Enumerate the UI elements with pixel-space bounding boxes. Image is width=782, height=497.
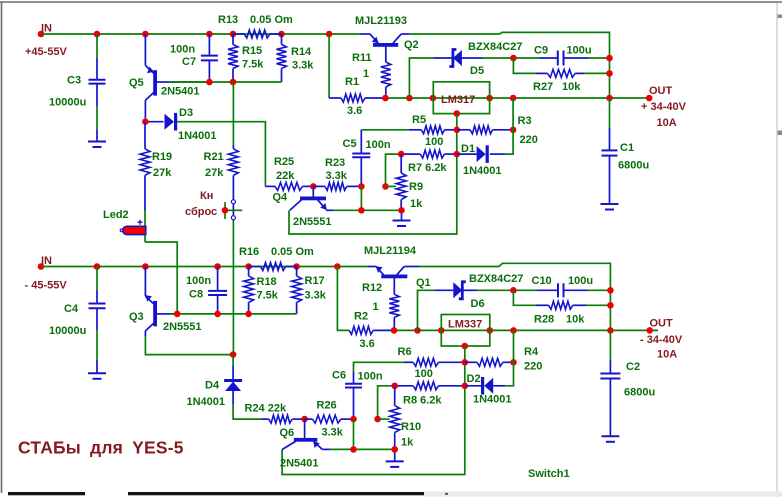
svg-text:3.3k: 3.3k (322, 427, 344, 439)
svg-text:BZX84C27: BZX84C27 (469, 273, 523, 285)
wire R7/R9 top elbow (386, 154, 402, 186)
wire Q6 emitter row (322, 448, 330, 450)
svg-text:3.3k: 3.3k (305, 290, 327, 302)
capacitor C1 (609, 98, 611, 128)
resistor R8 (395, 385, 414, 387)
resistor R28 (536, 304, 549, 306)
resistor R2 (349, 326, 373, 334)
transistor Q1 (367, 266, 376, 268)
ground C3 (88, 141, 106, 143)
capacitor C2 (609, 330, 611, 360)
transistor Q4 (312, 186, 314, 196)
svg-text:R28: R28 (534, 314, 554, 326)
node rail2 junctions (94, 263, 101, 270)
svg-text:C5: C5 (343, 138, 357, 150)
svg-text:1k: 1k (401, 437, 414, 449)
svg-text:R14: R14 (291, 46, 312, 58)
svg-text:1N4001: 1N4001 (178, 130, 217, 142)
svg-text:C10: C10 (532, 275, 552, 287)
svg-text:D4: D4 (205, 380, 220, 392)
resistor R21 (232, 82, 234, 145)
svg-text:100: 100 (415, 368, 433, 380)
svg-text:R24 22k: R24 22k (245, 403, 287, 415)
svg-text:Q6: Q6 (280, 427, 295, 439)
node R6/R4 junction (462, 359, 469, 366)
svg-text:C6: C6 (332, 370, 346, 382)
capacitor C9 (540, 57, 557, 59)
svg-text:R17: R17 (305, 275, 325, 287)
svg-text:100n: 100n (366, 139, 391, 151)
svg-text:Q1: Q1 (416, 277, 431, 289)
wire C9 right to column (588, 57, 610, 59)
svg-text:R8 6.2k: R8 6.2k (403, 395, 442, 407)
svg-text:IN: IN (41, 255, 52, 267)
svg-text:R27: R27 (533, 81, 553, 93)
wire R1 left column (328, 34, 330, 98)
node R7 left / R9 top (398, 151, 405, 158)
wire Q5 base to row (157, 81, 170, 83)
svg-text:R11: R11 (352, 52, 372, 64)
capacitor C8 (217, 267, 219, 291)
svg-text:R25: R25 (274, 156, 294, 168)
wire C6/R6 elbow (354, 362, 405, 372)
wire C6 node to emitter row2 (353, 419, 355, 449)
node D5/C9/R27 left (510, 55, 517, 62)
wire rail2 right loop to C10/R28/OUT column (419, 263, 611, 330)
svg-text:220: 220 (524, 361, 542, 373)
resistor R24 (262, 418, 269, 420)
svg-text:C4: C4 (64, 303, 79, 315)
svg-text:100u: 100u (568, 275, 593, 287)
svg-text:R13: R13 (218, 14, 238, 26)
svg-text:Led2: Led2 (103, 209, 129, 221)
node LM337 ADJ (462, 343, 469, 350)
wire C5/R5 elbow (361, 129, 409, 131)
svg-text:R19: R19 (152, 151, 172, 163)
wire D1 cathode to OUT column (505, 98, 513, 154)
svg-text:10A: 10A (657, 349, 677, 361)
svg-text:OUT: OUT (650, 318, 674, 330)
wire rail right loop to C9/R27/OUT column (410, 32, 610, 98)
svg-text:R23: R23 (325, 157, 345, 169)
ground Q4 emitter / R9 (401, 210, 403, 220)
resistor R26 (305, 418, 313, 420)
svg-text:R3: R3 (518, 115, 532, 127)
wire D4 cathode to R24 row (233, 404, 262, 419)
node OUT- terminal (646, 327, 653, 334)
diode D3 1N4001 (145, 121, 163, 123)
svg-text:BZX84C27: BZX84C27 (468, 41, 522, 53)
svg-text:100: 100 (425, 136, 443, 148)
node D3 anode (142, 118, 149, 125)
resistor R16 (249, 266, 261, 268)
svg-text:3.6: 3.6 (360, 338, 375, 350)
svg-text:27k: 27k (205, 167, 224, 179)
svg-text:D1: D1 (461, 143, 475, 155)
capacitor C10 (537, 289, 558, 291)
svg-text:D6: D6 (471, 298, 485, 310)
svg-text:10k: 10k (566, 314, 585, 326)
diode D1 1N4001 (457, 153, 477, 155)
resistor R11 (385, 47, 387, 63)
node rail junctions (94, 31, 101, 38)
svg-text:Q4: Q4 (273, 192, 289, 204)
svg-text:R10: R10 (401, 421, 421, 433)
resistor R10 (394, 386, 396, 406)
svg-text:R9: R9 (409, 181, 423, 193)
svg-text:100n: 100n (186, 275, 211, 287)
svg-text:сброс: сброс (185, 206, 217, 218)
capacitor C5 (360, 140, 362, 153)
svg-text:C7: C7 (182, 56, 196, 68)
resistor R5 (409, 129, 422, 131)
svg-text:R4: R4 (524, 346, 539, 358)
wire ADJ column and 2N5551 loop (289, 114, 457, 234)
svg-text:OUT: OUT (649, 85, 673, 97)
wire C5 node to emitter row (360, 186, 362, 210)
resistor R18 (248, 267, 250, 276)
svg-text:R12: R12 (362, 282, 382, 294)
resistor R25 (265, 185, 275, 187)
node R26/C6 junction (350, 416, 357, 423)
svg-text:100u: 100u (567, 45, 592, 57)
led Led2 (144, 211, 146, 243)
node OUT+ terminal (646, 95, 653, 102)
node Q3 collector / D4 anode (230, 351, 237, 358)
node R10 wiper (374, 416, 381, 423)
ground C2 (601, 435, 619, 437)
node R8 left / R10 top (391, 383, 398, 390)
svg-text:0.05 Om: 0.05 Om (250, 14, 293, 26)
svg-text:MJL21194: MJL21194 (364, 245, 417, 257)
svg-text:Q2: Q2 (404, 39, 419, 51)
svg-text:7.5k: 7.5k (242, 59, 264, 71)
wire C10 right to column (588, 289, 610, 291)
svg-text:C8: C8 (189, 289, 203, 301)
wire +IN rail (41, 33, 361, 35)
ground C1 (601, 203, 619, 205)
diode D5 BZX84C27 (434, 57, 453, 59)
svg-text:Switch1: Switch1 (528, 468, 570, 480)
wire D3 cathode run to R25 (177, 122, 266, 187)
svg-text:R7 6.2k: R7 6.2k (408, 162, 447, 174)
svg-text:1: 1 (363, 68, 369, 80)
svg-text:- 34-40V: - 34-40V (640, 334, 683, 346)
wire R8/R10 top elbow (378, 386, 395, 419)
wire ADJ2 column and 2N5401 loop (282, 346, 465, 475)
svg-text:C3: C3 (67, 75, 81, 87)
svg-text:3.3k: 3.3k (292, 60, 314, 72)
svg-text:C2: C2 (626, 361, 640, 373)
node IN+ terminal (38, 31, 45, 38)
svg-text:+45-55V: +45-55V (25, 46, 68, 58)
wire -IN rail (41, 266, 367, 268)
resistor R17 (296, 267, 298, 276)
node R8 right / D2 cathode (462, 383, 469, 390)
resistor R19 (144, 122, 146, 149)
wire button column down to lower half (232, 175, 234, 220)
node LM317 ADJ (454, 110, 461, 117)
svg-text:Кн: Кн (200, 190, 213, 202)
wire R27 elbow (513, 58, 536, 73)
svg-text:C1: C1 (620, 142, 634, 154)
svg-text:IN: IN (41, 23, 52, 35)
svg-text:- 45-55V: - 45-55V (25, 280, 68, 292)
svg-text:LM317: LM317 (441, 94, 475, 106)
capacitor C7 (208, 34, 210, 55)
transistor Q6 (304, 419, 306, 438)
svg-text:7.5k: 7.5k (257, 290, 279, 302)
resistor R9 (400, 154, 402, 173)
node R7 right / D1 anode (454, 151, 461, 158)
svg-text:27k: 27k (153, 167, 172, 179)
svg-text:0.05 Om: 0.05 Om (271, 246, 314, 258)
node Q4 base (310, 183, 317, 190)
svg-text:100n: 100n (170, 44, 195, 56)
svg-text:R18: R18 (257, 276, 277, 288)
wire Q4 emitter row (326, 209, 333, 211)
svg-text:22k: 22k (276, 170, 295, 182)
resistor R7 (401, 153, 420, 155)
svg-text:D5: D5 (470, 65, 484, 77)
resistor R27 (536, 72, 548, 74)
diode D2 1N4001 (465, 385, 481, 387)
wire D5 to C9 node (482, 57, 540, 59)
capacitor C4 (96, 267, 98, 291)
svg-text:R21: R21 (204, 151, 224, 163)
wire row C8/R18/R17 bottom (170, 313, 297, 315)
ground C4 (88, 372, 106, 374)
node D6/C10/R28 left (510, 287, 517, 294)
svg-text:R6: R6 (398, 346, 412, 358)
resistor R4 (465, 361, 477, 363)
svg-text:1: 1 (373, 301, 379, 313)
wire row C7/R15/R14 bottom (169, 81, 281, 83)
capacitor C3 (96, 34, 98, 58)
ground Q6 emitter / R10 (394, 449, 396, 461)
node R3 right (510, 127, 517, 134)
wire Q3 collector run (144, 331, 146, 336)
wire node row2 to OUT- (394, 329, 658, 331)
svg-text:100n: 100n (358, 371, 383, 383)
svg-text:LM337: LM337 (448, 319, 482, 331)
svg-text:R26: R26 (317, 400, 337, 412)
node R5/R3 junction (454, 127, 461, 134)
svg-text:СТАБы для YES-5: СТАБы для YES-5 (18, 438, 184, 458)
wire node row to OUT+ (385, 97, 649, 99)
svg-text:Q5: Q5 (129, 77, 144, 89)
wire D2 anode to OUT2 column (505, 330, 514, 385)
svg-text:R16: R16 (239, 246, 259, 258)
svg-text:1k: 1k (410, 198, 423, 210)
resistor R14 (281, 34, 283, 45)
resistor R23 (313, 185, 325, 187)
svg-text:6800u: 6800u (624, 387, 655, 399)
resistor R6 (404, 361, 413, 363)
svg-text:2N5401: 2N5401 (280, 458, 319, 470)
svg-text:1N4001: 1N4001 (463, 165, 502, 177)
svg-text:10000u: 10000u (49, 325, 86, 337)
wire R28 elbow (513, 290, 536, 305)
svg-text:2N5551: 2N5551 (293, 216, 332, 228)
svg-text:C9: C9 (534, 45, 548, 57)
svg-text:10A: 10A (657, 117, 677, 129)
transistor Q3 (144, 267, 146, 297)
node R23/C5 junction (358, 183, 365, 190)
svg-text:D3: D3 (179, 107, 193, 119)
wire R28 right to column (586, 304, 610, 306)
svg-text:2N5401: 2N5401 (161, 86, 200, 98)
transistor Q5 (144, 34, 146, 66)
node Q6 base (301, 416, 308, 423)
diode D6 BZX84C27 (435, 289, 454, 291)
transistor Q2 (361, 33, 371, 35)
svg-text:+ 34-40V: + 34-40V (641, 101, 687, 113)
resistor R12 (393, 278, 395, 294)
svg-text:3.6: 3.6 (347, 105, 362, 117)
svg-text:R15: R15 (242, 45, 262, 57)
svg-text:MJL21193: MJL21193 (355, 15, 407, 27)
node R9 wiper (382, 183, 389, 190)
diode D4 1N4001 (232, 355, 234, 366)
wire D5 branch from node row (409, 58, 433, 98)
regulator U2 LM337 box (441, 315, 490, 347)
switch Kn reset button (231, 200, 235, 204)
capacitor C6 (353, 372, 355, 383)
svg-text:R2: R2 (354, 311, 368, 323)
svg-text:R1: R1 (345, 76, 359, 88)
wire D6 to C10 node (477, 289, 537, 291)
wire Q5 collector column (144, 100, 146, 122)
resistor R13 (233, 33, 244, 35)
wire R2 left column (337, 267, 349, 331)
wire D6 branch from node row2 (418, 290, 435, 330)
svg-text:D2: D2 (467, 373, 481, 385)
wire Q3 base to row (157, 313, 170, 315)
svg-text:2N5551: 2N5551 (163, 321, 202, 333)
resistor R3 (457, 129, 470, 131)
svg-text:10000u: 10000u (49, 97, 86, 109)
svg-text:R5: R5 (412, 114, 426, 126)
regulator U1 LM317 box (433, 82, 489, 114)
svg-text:Q3: Q3 (129, 311, 144, 323)
node R4 right (510, 359, 517, 366)
svg-text:3.3k: 3.3k (326, 170, 348, 182)
svg-text:6800u: 6800u (618, 160, 649, 172)
svg-text:1N4001: 1N4001 (187, 396, 226, 408)
wire R27 right to column (584, 72, 610, 74)
node IN- terminal (38, 263, 45, 270)
svg-text:10k: 10k (562, 81, 581, 93)
wire Led2 to Q3 base riser (145, 242, 177, 314)
svg-text:220: 220 (520, 134, 538, 146)
resistor R15 (232, 34, 234, 45)
svg-text:1N4001: 1N4001 (473, 394, 512, 406)
resistor R1 (341, 94, 365, 102)
